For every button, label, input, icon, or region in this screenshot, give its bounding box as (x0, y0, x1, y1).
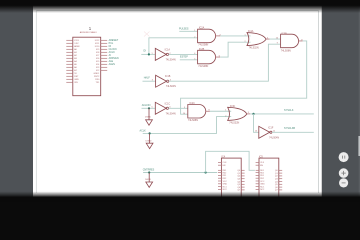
IC6 right pins (101, 40, 108, 70)
svg-text:74LS08N: 74LS08N (281, 49, 291, 52)
IC6 left pin names (74, 40, 80, 84)
top letterbox bar (0, 0, 360, 13)
bottom letterbox bar (0, 192, 360, 198)
svg-text:1: 1 (245, 35, 246, 37)
wire IC1C output to IC2C pin1 (169, 107, 188, 109)
wire HALF stub to IC1B input (143, 80, 156, 82)
AND gate IC3B (74LS08N) (276, 33, 303, 53)
ghost origin cross (144, 32, 150, 37)
svg-text:3: 3 (152, 80, 153, 82)
inverter IC1C (74LS04N) (152, 102, 176, 115)
svg-text:VIN: VIN (74, 82, 78, 84)
OR gate IC3A (74LS32N) (225, 105, 250, 124)
svg-text:74LS08N: 74LS08N (198, 65, 208, 68)
left gray panel (0, 0, 33, 202)
junction ACLK node (149, 132, 151, 134)
svg-text:GND: GND (260, 184, 265, 186)
svg-text:74LS08N: 74LS08N (188, 119, 198, 122)
IC4 left pins (218, 162, 221, 189)
svg-text:PULSES: PULSES (179, 28, 189, 31)
wire ACLK to IC3A pin2 (143, 117, 232, 134)
svg-text:RST: RST (74, 76, 79, 78)
svg-text:3.3V: 3.3V (74, 43, 79, 45)
svg-text:13: 13 (255, 131, 257, 133)
wire DI stub to IC1A input (141, 53, 155, 55)
inverter IC1F (74LS04N) (255, 126, 279, 139)
svg-text:4: 4 (194, 53, 195, 55)
IC5 pin names (260, 162, 265, 191)
svg-text:ARDUINO NANO: ARDUINO NANO (80, 31, 97, 34)
svg-text:2: 2 (225, 115, 226, 117)
IC6 right pin names (94, 40, 101, 84)
sheet frame left line (35, 11, 37, 193)
zoom-out button (339, 178, 348, 187)
IC5 left pins (256, 162, 259, 189)
svg-text:ACLK: ACLK (140, 129, 147, 132)
junction CNTRRES node (148, 171, 150, 173)
svg-text:CLK: CLK (223, 162, 228, 164)
wire PULSES to IC2A pin1 (179, 30, 197, 32)
svg-text:IC2C: IC2C (189, 102, 195, 105)
wire IC4A output to IC3B pin1 (270, 38, 281, 40)
inverter IC1B (74LS04N) (152, 75, 176, 88)
svg-text:1: 1 (225, 110, 226, 112)
wire ACLKIN stub to IC1C input (142, 107, 156, 109)
zoom-reset button (339, 152, 349, 162)
svg-text:IC2B: IC2B (199, 48, 205, 51)
wire IC3A output to SYSCLK (250, 113, 313, 115)
svg-text:ESTEP: ESTEP (180, 55, 188, 58)
zoom-in button (339, 168, 349, 178)
wire IC1B output to IC3B pin2 (169, 44, 281, 81)
svg-text:74LS08N: 74LS08N (198, 44, 208, 47)
svg-text:HALF: HALF (144, 76, 151, 79)
svg-text:CNTRRES: CNTRRES (143, 168, 155, 171)
wire IC2A output to IC4A pin1 (220, 35, 250, 37)
scrollbar track (359, 0, 360, 202)
svg-text:GND: GND (74, 79, 79, 81)
svg-text:GND1: GND1 (94, 73, 101, 75)
svg-text:IC1C: IC1C (165, 102, 171, 105)
wire IC2C output to IC3A pin1 (210, 110, 231, 112)
svg-text:IC3C: IC3C (230, 105, 236, 108)
inverter IC1A (74LS04N) (152, 48, 176, 61)
ground DGND symbol under ACLK (146, 133, 153, 148)
svg-text:IC4A: IC4A (248, 30, 254, 33)
IC4 body (counter) (221, 158, 241, 198)
wire counter clock branch to IC5 (206, 151, 255, 172)
svg-text:5: 5 (194, 59, 195, 61)
AND gate IC2B (74LS08N) (194, 48, 220, 68)
svg-text:IC1B: IC1B (165, 75, 171, 78)
svg-text:9: 9 (277, 43, 278, 45)
svg-text:ACLKIN: ACLKIN (142, 104, 151, 107)
svg-text:DGND: DGND (146, 140, 152, 142)
IC6 left pins (66, 40, 73, 82)
svg-text:DGND: DGND (145, 179, 151, 181)
white schematic canvas (33, 0, 322, 202)
svg-text:74LS04N: 74LS04N (269, 136, 279, 139)
junction SYSCLK node (252, 113, 254, 115)
wire IC1F output SYSCLKB (272, 131, 314, 133)
AND gate IC2A (74LS08N) (194, 27, 220, 47)
AND gate IC2C (74LS08N) (183, 102, 210, 122)
junction counter clock node (205, 171, 207, 173)
svg-text:74LS32N: 74LS32N (229, 121, 239, 124)
wire DI branch up (149, 38, 198, 55)
wire ESTEP stub to IC2B pin2 (180, 59, 198, 61)
svg-text:DI: DI (144, 50, 147, 53)
ground DGND symbol under ACLKIN (146, 108, 153, 125)
scrollbar thumb (358, 136, 360, 156)
svg-text:74LS04N: 74LS04N (166, 112, 176, 115)
svg-text:5: 5 (152, 107, 153, 109)
svg-text:RST2: RST2 (94, 76, 100, 78)
svg-text:SYSCLK: SYSCLK (284, 109, 294, 112)
wire CNTRRES to IC4 pin (143, 172, 217, 174)
junction ACLKIN node (148, 107, 150, 109)
ground DGND symbol under CNTRRES (146, 173, 153, 188)
svg-text:IC3B: IC3B (281, 33, 287, 36)
svg-text:74LS04N: 74LS04N (166, 85, 176, 88)
wire IC2B output up to IC4A pin2 (220, 42, 250, 57)
svg-text:SYSCLKB: SYSCLKB (284, 127, 295, 130)
svg-text:DGND: DGND (145, 117, 151, 119)
svg-text:10: 10 (276, 37, 278, 39)
svg-text:74LS32N: 74LS32N (249, 47, 259, 50)
svg-text:AREF: AREF (74, 45, 80, 48)
right gray panel (322, 0, 360, 202)
svg-text:9: 9 (184, 107, 185, 109)
svg-text:74LS04N: 74LS04N (166, 58, 176, 61)
svg-text:1: 1 (194, 30, 195, 32)
sheet frame right line (318, 11, 320, 193)
svg-text:1: 1 (152, 53, 153, 55)
IC6 body (Arduino module) (73, 37, 101, 95)
IC6 right net labels (109, 39, 119, 66)
svg-text:2: 2 (245, 41, 246, 43)
junction DI node (148, 53, 150, 55)
wire IC1A output to IC2B pin1 (169, 53, 198, 55)
IC5 right pins (279, 170, 282, 190)
IC4 right pins (241, 170, 244, 190)
svg-text:IC1A: IC1A (165, 48, 171, 51)
svg-text:ALEN: ALEN (109, 63, 116, 66)
svg-text:IC1F: IC1F (268, 126, 274, 129)
IC5 body (counter) (259, 158, 279, 198)
wire SYSCLK branch down to IC1F input (254, 114, 259, 132)
sheet frame top line (36, 10, 318, 12)
svg-text:VCC: VCC (260, 181, 265, 183)
OR gate IC4A (74LS32N) (245, 30, 270, 49)
svg-text:2: 2 (194, 37, 195, 39)
IC4 pin names (223, 162, 228, 191)
svg-text:CLK: CLK (260, 162, 265, 164)
svg-text:VCC: VCC (223, 181, 228, 183)
svg-text:GND: GND (223, 184, 228, 186)
svg-text:10: 10 (183, 113, 185, 115)
wire IC3B output down-left to IC2C pin2 (181, 41, 307, 114)
svg-text:IC2A: IC2A (199, 27, 205, 30)
